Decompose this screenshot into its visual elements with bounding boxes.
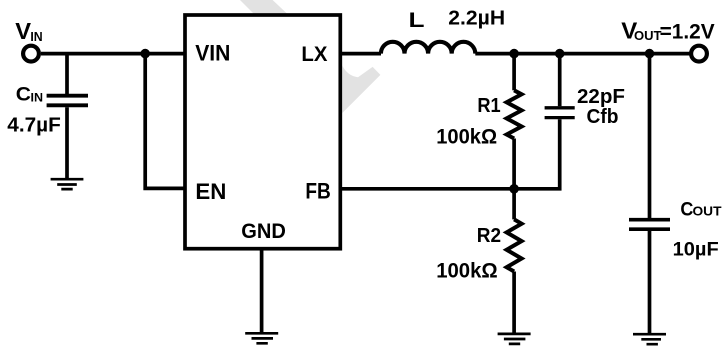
svg-text:10µF: 10µF [673,239,719,261]
node junction FB net [509,184,519,194]
svg-text:=1.2V: =1.2V [660,20,716,44]
capacitor COUT bottom lead [648,231,652,334]
capacitor CIN bottom lead [65,107,69,178]
IC box U1 [185,15,340,249]
resistor R2 upper lead [512,189,516,220]
resistor R2 zigzag [507,219,522,271]
capacitor Cfb top lead [558,54,562,107]
svg-text:FB: FB [305,178,330,203]
ground under CIN [51,179,84,189]
capacitor COUT top lead [648,54,652,218]
capacitor COUT plates [629,220,670,230]
svg-text:EN: EN [195,179,226,204]
svg-text:C: C [16,85,31,106]
inductor L 2.2µH [381,42,475,54]
svg-text:IN: IN [31,90,44,104]
wire: GND pin to ground [260,249,264,334]
watermark stripe upper piece [240,0,288,15]
watermark check-vertex piece [342,66,380,113]
svg-text:100kΩ: 100kΩ [436,124,497,148]
svg-text:OUT: OUT [693,205,722,219]
ground under GND pin [245,333,278,343]
wire: LX pin to inductor [340,52,381,56]
svg-text:L: L [409,9,425,32]
svg-text:V: V [15,18,31,44]
wire: inductor to output terminal [475,52,690,56]
svg-text:4.7µF: 4.7µF [7,114,61,136]
svg-text:C: C [680,198,693,220]
ground under R2 [498,334,531,344]
node junction on input rail [140,49,150,59]
svg-text:VIN: VIN [195,40,230,65]
svg-text:2.2µH: 2.2µH [448,8,505,30]
ground under COUT [633,334,666,344]
capacitor Cfb plates [545,108,575,118]
wire: FB net from FB pin to Cfb bottom [340,119,559,189]
svg-text:100kΩ: 100kΩ [436,258,498,282]
svg-text:IN: IN [30,30,42,44]
svg-text:Cfb: Cfb [587,106,619,128]
svg-text:OUT: OUT [634,29,662,43]
wire: EN tie to input rail [145,54,185,189]
capacitor CIN top lead [65,54,69,95]
node junction at Cfb top [555,49,565,59]
output terminal VOUT [691,46,707,62]
resistor R1 lower lead [512,139,516,189]
svg-text:GND: GND [241,219,286,243]
svg-text:R2: R2 [477,225,501,247]
node junction at COUT top [645,49,655,59]
resistor R1 upper lead [512,54,516,91]
svg-text:R1: R1 [477,95,500,117]
resistor R2 lower lead [512,272,516,335]
svg-text:LX: LX [301,42,328,66]
capacitor CIN plates [47,96,88,106]
resistor R1 zigzag [507,90,522,138]
wire: VIN rail from input terminal to box [41,52,185,56]
node junction at LX/R1 [509,49,519,59]
input terminal VIN [23,46,39,62]
